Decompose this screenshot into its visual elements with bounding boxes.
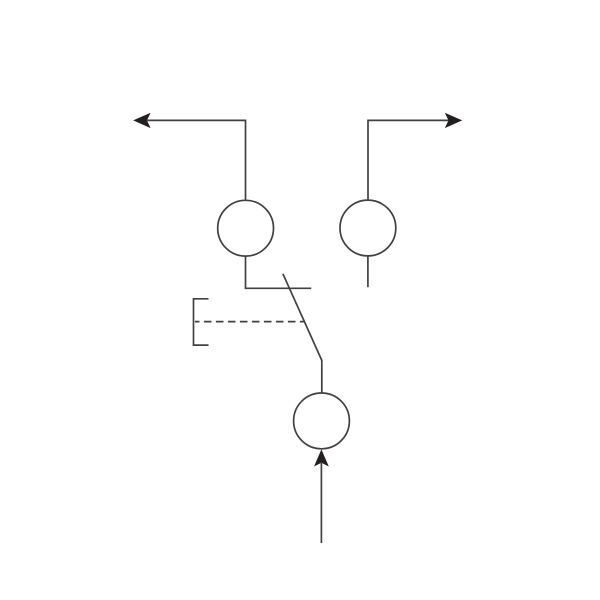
terminal circle T3 (right contact)	[340, 200, 396, 256]
wire: blade to bottom terminal	[321, 360, 323, 393]
wire: right arrow horizontal run	[368, 119, 449, 121]
terminal circle T2 (bottom common terminal)	[294, 393, 350, 449]
wire: right vertical rise	[367, 120, 369, 200]
wire: T1 bottom to switch common (with corner)	[246, 256, 312, 288]
wire: left arrow horizontal run	[147, 119, 246, 121]
terminal circle T1 (left contact)	[218, 200, 274, 256]
arrowhead A3 (right throw, pointing right)	[445, 113, 462, 128]
switch blade S1 (movable contact, diagonal)	[283, 274, 322, 361]
wire: input vertical line	[320, 462, 322, 543]
wire: T3 bottom stub	[367, 256, 369, 287]
actuator bracket (operator symbol)	[194, 299, 209, 345]
arrowhead A1 (left throw, pointing left)	[133, 113, 150, 128]
arrowhead A2 (input, pointing up into T2)	[314, 449, 329, 466]
wire: left vertical drop to terminal	[245, 120, 247, 201]
actuator linkage (dashed mechanical link)	[195, 321, 304, 323]
